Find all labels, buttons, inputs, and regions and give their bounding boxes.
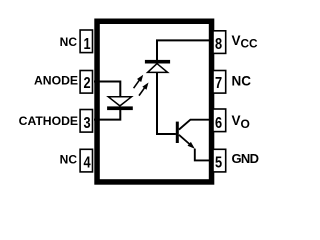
pin number 4 — [83, 154, 90, 172]
pin number 2 — [83, 75, 90, 93]
photodiode D2 triangle — [148, 64, 168, 73]
svg-text:6: 6 — [215, 115, 222, 133]
pin 3 box — [80, 110, 92, 133]
transistor Q1 emitter wire with arrow to pin5 — [179, 135, 190, 145]
svg-text:NC: NC — [232, 74, 252, 89]
svg-text:VCC: VCC — [232, 33, 259, 50]
wire pin2 to LED anode — [94, 82, 120, 97]
wire photodiode cathode to pin8 — [157, 40, 214, 60]
LED D1 triangle — [108, 97, 131, 106]
wire LED cathode to pin3 — [94, 108, 120, 120]
transistor Q1 base bar — [176, 122, 179, 143]
svg-text:NC: NC — [60, 35, 78, 49]
svg-text:5: 5 — [215, 154, 222, 172]
light arrow 1 — [134, 75, 144, 88]
svg-text:ANODE: ANODE — [34, 73, 78, 87]
package outline — [97, 21, 212, 182]
pin 6 box — [213, 109, 226, 132]
light arrow 2 — [139, 83, 149, 96]
photodiode D2 cathode bar — [145, 60, 170, 64]
svg-text:4: 4 — [83, 154, 90, 172]
pin 4 box — [80, 149, 92, 172]
pin 2 box — [80, 71, 92, 94]
pin number 6 — [215, 115, 222, 133]
svg-text:CATHODE: CATHODE — [19, 114, 78, 128]
svg-text:3: 3 — [83, 115, 90, 133]
svg-text:1: 1 — [83, 36, 90, 54]
pin 7 box — [213, 71, 226, 94]
pin 5 box — [213, 149, 226, 172]
LED D1 cathode bar — [107, 106, 133, 110]
svg-text:7: 7 — [215, 75, 222, 93]
svg-text:GND: GND — [232, 151, 259, 166]
pin number 1 — [83, 36, 90, 54]
pin number 5 — [215, 154, 222, 172]
transistor Q1 collector wire to pin6 — [179, 120, 214, 130]
pin number 3 — [83, 115, 90, 133]
pin 1 box — [80, 30, 92, 53]
pin 8 box — [213, 31, 226, 54]
svg-text:NC: NC — [60, 153, 78, 167]
wire photodiode anode to transistor base — [157, 72, 176, 134]
pin number 8 — [215, 36, 222, 54]
svg-text:2: 2 — [83, 75, 90, 93]
pin number 7 — [215, 75, 222, 93]
svg-text:8: 8 — [215, 36, 222, 54]
